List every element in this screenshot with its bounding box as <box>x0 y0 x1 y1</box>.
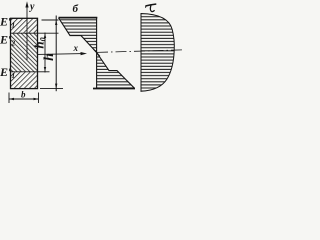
extension line bottom of section <box>40 88 63 90</box>
core layer hatch E2 <box>11 33 38 72</box>
neutral axis dash-dot line <box>97 50 184 53</box>
tau diagram zero axis (vertical) <box>140 13 142 91</box>
y axis <box>25 1 28 60</box>
dimension b under section <box>9 93 39 104</box>
svg-text:б: б <box>73 3 79 15</box>
sigma diagram zero axis (vertical) <box>96 17 98 89</box>
sigma diagram upper hatched area <box>59 18 98 53</box>
sigma diagram lower outline <box>97 53 135 89</box>
svg-text:b: b <box>21 90 26 100</box>
extension line upper interface <box>38 32 59 34</box>
sigma diagram lower hatched area <box>97 53 134 89</box>
svg-text:x: x <box>73 43 79 53</box>
sigma diagram bottom edge (thick) <box>93 88 135 90</box>
extension line lower interface <box>38 71 50 73</box>
svg-text:h: h <box>42 53 57 61</box>
x axis <box>38 52 87 55</box>
top face layer hatch E1 <box>11 19 37 34</box>
dimension h0 (core height) <box>44 33 46 73</box>
tau diagram hatched area (D-shape) <box>141 14 174 92</box>
sigma diagram upper outline: face slant, jump, core slant <box>59 18 101 57</box>
dimension h (full height) <box>55 16 57 92</box>
svg-text:y: y <box>29 2 35 13</box>
cross-section rectangle <box>11 18 38 88</box>
tau diagram label <box>146 4 156 12</box>
bottom face layer hatch E1 <box>11 72 37 88</box>
sigma diagram top edge (thick) <box>59 17 98 19</box>
extension line top of section <box>42 19 59 21</box>
